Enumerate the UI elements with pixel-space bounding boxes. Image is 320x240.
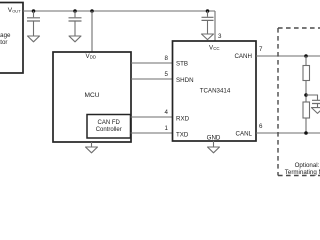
- wire STB: [131, 62, 173, 64]
- capacitor C4: [312, 100, 320, 107]
- wire SHDN: [131, 78, 173, 80]
- svg-text:6: 6: [259, 123, 263, 130]
- label VOUT: [8, 7, 21, 14]
- svg-text:TXD: TXD: [176, 131, 189, 138]
- svg-text:CC: CC: [213, 46, 219, 51]
- svg-text:8: 8: [165, 55, 169, 62]
- svg-text:STB: STB: [176, 60, 188, 67]
- note: optional terminating network: [285, 162, 320, 176]
- node: cap1 junction: [32, 9, 36, 13]
- node: VDD junction: [90, 9, 94, 13]
- svg-text:5: 5: [165, 71, 169, 78]
- label VCC: [209, 44, 220, 51]
- svg-text:TCAN3414: TCAN3414: [200, 88, 231, 95]
- wire: R1 to center node: [305, 81, 307, 103]
- node: split center: [304, 93, 308, 97]
- svg-text:MCU: MCU: [84, 92, 99, 99]
- svg-text:CAN FD: CAN FD: [98, 120, 121, 126]
- svg-text:RXD: RXD: [176, 115, 190, 122]
- resistor R1: [303, 66, 310, 81]
- ground (TCAN): [208, 141, 220, 153]
- svg-text:Controller: Controller: [96, 127, 122, 133]
- ground: [312, 108, 320, 114]
- wire: R2 to CANL: [305, 118, 307, 133]
- resistor R2: [303, 102, 310, 118]
- svg-text:Voltage: Voltage: [0, 32, 11, 39]
- wire RXD: [131, 116, 173, 118]
- node: cap3 junction: [206, 9, 210, 13]
- label VDD: [86, 53, 97, 60]
- ground (MCU): [86, 142, 98, 153]
- svg-text:DD: DD: [90, 55, 96, 60]
- wire: R1 top stub: [305, 56, 307, 66]
- wire: VCC drop to TCAN pin 3: [214, 11, 216, 41]
- node: CANL junction: [304, 131, 308, 135]
- wire: VDD drop to MCU: [91, 11, 93, 52]
- node: cap2 junction: [73, 9, 77, 13]
- wire CANL: [256, 132, 320, 134]
- svg-text:7: 7: [259, 46, 263, 53]
- voltage regulator U1: [0, 3, 23, 74]
- svg-text:CANH: CANH: [234, 53, 252, 60]
- dashed box: optional terminating network: [278, 28, 320, 176]
- CAN FD Controller: [87, 115, 131, 139]
- wire: split cap feed: [306, 95, 318, 100]
- capacitor C1: [27, 11, 40, 36]
- svg-text:Regulator: Regulator: [0, 39, 8, 46]
- svg-text:OUT: OUT: [12, 8, 21, 13]
- svg-text:SHDN: SHDN: [176, 77, 194, 84]
- wire: VOUT rail: [23, 10, 215, 12]
- capacitor C2: [69, 11, 82, 36]
- capacitor C3: [202, 11, 214, 34]
- ground: [28, 36, 40, 42]
- wire CANH: [256, 55, 320, 57]
- svg-text:Terminating Network: Terminating Network: [285, 169, 320, 176]
- svg-text:3: 3: [218, 33, 222, 40]
- svg-text:CANL: CANL: [235, 130, 252, 137]
- svg-text:4: 4: [165, 109, 169, 116]
- svg-text:Optional:: Optional:: [295, 162, 320, 169]
- svg-text:1: 1: [165, 125, 169, 132]
- node: CANH junction: [304, 54, 308, 58]
- ground: [69, 36, 81, 42]
- MCU U2: [53, 52, 131, 142]
- wire TXD: [131, 132, 173, 134]
- svg-text:GND: GND: [207, 135, 221, 142]
- transceiver U3 TCAN3414: [173, 41, 257, 141]
- ground: [202, 34, 214, 40]
